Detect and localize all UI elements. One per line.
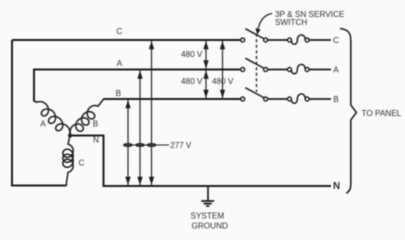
switch gang link (dashed) — [256, 28, 258, 92]
wire bottom left (to winding C) — [11, 185, 67, 187]
svg-text:B: B — [333, 95, 339, 104]
wire 277V leader line — [123, 144, 169, 146]
node 277V tap ellipse x=140 — [136, 144, 144, 147]
svg-text:480 V: 480 V — [181, 77, 203, 86]
svg-text:SYSTEM: SYSTEM — [191, 212, 225, 221]
switch contact circle A (load side) — [264, 68, 268, 72]
svg-text:GROUND: GROUND — [192, 221, 228, 230]
ground symbol — [207, 186, 209, 201]
svg-text:C: C — [333, 36, 339, 45]
wire neutral from junction — [70, 136, 331, 187]
wire 480V arrow A-B — [205, 71, 207, 99]
wire phase C horizontal — [12, 39, 241, 41]
wire phase A vertical drop — [33, 69, 35, 102]
wire fuse to panel A — [309, 69, 331, 71]
switch contact circle C (line side) — [241, 38, 245, 42]
svg-text:277 V: 277 V — [170, 141, 192, 150]
node 277V tap ellipse x=151.5 — [147, 144, 155, 147]
node wye junction — [68, 134, 72, 138]
svg-text:TO PANEL: TO PANEL — [362, 109, 402, 118]
winding A (transformer coil) — [34, 101, 70, 136]
fuse C — [288, 38, 292, 42]
svg-text:N: N — [333, 181, 340, 192]
node 277V tap ellipse x=128 — [124, 144, 132, 147]
switch contact circle B (line side) — [241, 97, 245, 101]
wire 277V measurement arrow x=128 — [127, 100, 129, 185]
fuse A — [288, 68, 292, 72]
svg-text:C: C — [116, 27, 122, 36]
wire 277V measurement arrow x=140 — [139, 71, 141, 186]
wire switch to fuse A — [268, 69, 288, 71]
wire fuse to panel C — [309, 39, 331, 41]
switch blade A — [245, 58, 264, 68]
switch contact circle B (load side) — [264, 97, 268, 101]
svg-text:A: A — [117, 59, 123, 68]
wire phase A horizontal — [34, 69, 241, 71]
switch blade B — [245, 88, 264, 98]
svg-text:N: N — [93, 136, 99, 145]
winding B (transformer coil) — [70, 99, 104, 136]
svg-text:B: B — [116, 89, 122, 98]
wire switch to fuse C — [268, 39, 288, 41]
winding C (transformer coil) — [63, 136, 73, 186]
svg-text:B: B — [93, 120, 99, 129]
svg-text:A: A — [40, 120, 46, 129]
switch contact circle A (line side) — [241, 68, 245, 72]
svg-text:SWITCH: SWITCH — [275, 18, 307, 27]
wire 480V arrow C-B — [222, 41, 224, 98]
svg-text:C: C — [79, 159, 85, 168]
wire 480V arrow C-A — [205, 41, 207, 69]
wire 277V measurement arrow x=151.5 — [151, 41, 153, 185]
brace TO PANEL — [340, 29, 356, 194]
fuse B — [288, 97, 292, 101]
wire left vertical (phase C down) — [11, 40, 13, 186]
svg-text:A: A — [333, 65, 339, 74]
svg-text:480 V: 480 V — [212, 77, 234, 86]
wire phase B horizontal — [104, 98, 241, 100]
switch blade C — [245, 29, 264, 39]
leader arrow to switch — [258, 14, 272, 29]
wire fuse to panel B — [309, 98, 331, 100]
svg-text:480 V: 480 V — [181, 50, 203, 59]
switch contact circle C (load side) — [264, 38, 268, 42]
wire switch to fuse B — [268, 98, 288, 100]
